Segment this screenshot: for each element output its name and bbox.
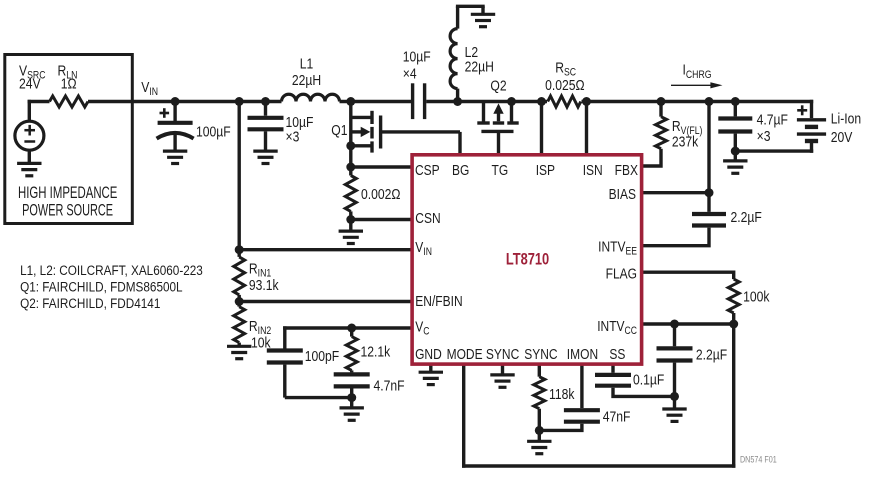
svg-text:24V: 24V	[19, 75, 41, 92]
svg-text:IMON: IMON	[567, 346, 598, 363]
svg-text:TG: TG	[492, 162, 509, 179]
svg-text:0.002Ω: 0.002Ω	[361, 186, 400, 203]
svg-text:100k: 100k	[743, 288, 769, 305]
svg-text:GND: GND	[415, 346, 442, 363]
svg-text:2.2µF: 2.2µF	[696, 346, 727, 363]
svg-text:Q2: Q2	[490, 77, 506, 94]
svg-text:93.1k: 93.1k	[249, 277, 279, 294]
svg-text:×3: ×3	[286, 128, 300, 145]
svg-text:118k: 118k	[549, 386, 575, 403]
svg-text:ISP: ISP	[536, 162, 555, 179]
svg-text:100pF: 100pF	[305, 348, 339, 365]
svg-text:4.7µF: 4.7µF	[757, 111, 788, 128]
svg-text:HIGH IMPEDANCE: HIGH IMPEDANCE	[18, 183, 117, 202]
svg-text:POWER SOURCE: POWER SOURCE	[22, 200, 113, 219]
svg-text:SYNC: SYNC	[524, 346, 557, 363]
svg-text:237k: 237k	[672, 133, 698, 150]
svg-text:L1, L2: COILCRAFT, XAL6060-223: L1, L2: COILCRAFT, XAL6060-223	[20, 262, 203, 278]
svg-text:0.1µF: 0.1µF	[633, 371, 664, 388]
svg-text:20V: 20V	[831, 129, 853, 146]
svg-text:12.1k: 12.1k	[361, 343, 391, 360]
svg-text:10k: 10k	[251, 334, 271, 351]
svg-text:47nF: 47nF	[603, 408, 631, 425]
svg-text:L1: L1	[300, 55, 314, 72]
svg-text:CSP: CSP	[415, 162, 440, 179]
svg-text:Q1: Q1	[331, 122, 347, 139]
svg-text:CSN: CSN	[415, 210, 440, 227]
svg-text:2.2µF: 2.2µF	[731, 209, 762, 226]
svg-text:SYNC: SYNC	[486, 346, 519, 363]
svg-text:DN574 F01: DN574 F01	[740, 455, 777, 465]
svg-text:Li-Ion: Li-Ion	[831, 110, 861, 127]
svg-text:FBX: FBX	[615, 162, 638, 179]
svg-text:Q1: FAIRCHILD, FDMS86500L: Q1: FAIRCHILD, FDMS86500L	[20, 279, 182, 295]
svg-text:BIAS: BIAS	[609, 186, 636, 203]
svg-text:10µF: 10µF	[403, 48, 431, 65]
svg-text:LT8710: LT8710	[506, 251, 549, 269]
svg-text:1Ω: 1Ω	[61, 75, 77, 92]
svg-text:4.7nF: 4.7nF	[374, 377, 405, 394]
svg-text:100µF: 100µF	[196, 123, 231, 140]
svg-text:FLAG: FLAG	[606, 265, 637, 282]
svg-text:ISN: ISN	[583, 162, 603, 179]
svg-text:BG: BG	[452, 162, 469, 179]
svg-text:SS: SS	[609, 346, 625, 363]
svg-text:MODE: MODE	[447, 346, 483, 363]
svg-text:22µH: 22µH	[465, 58, 494, 75]
svg-text:22µH: 22µH	[292, 72, 321, 89]
svg-text:Q2: FAIRCHILD, FDD4141: Q2: FAIRCHILD, FDD4141	[20, 295, 160, 311]
svg-text:×3: ×3	[757, 128, 771, 145]
svg-text:EN/FBIN: EN/FBIN	[415, 293, 462, 310]
svg-text:×4: ×4	[403, 65, 417, 82]
svg-text:0.025Ω: 0.025Ω	[545, 77, 584, 94]
